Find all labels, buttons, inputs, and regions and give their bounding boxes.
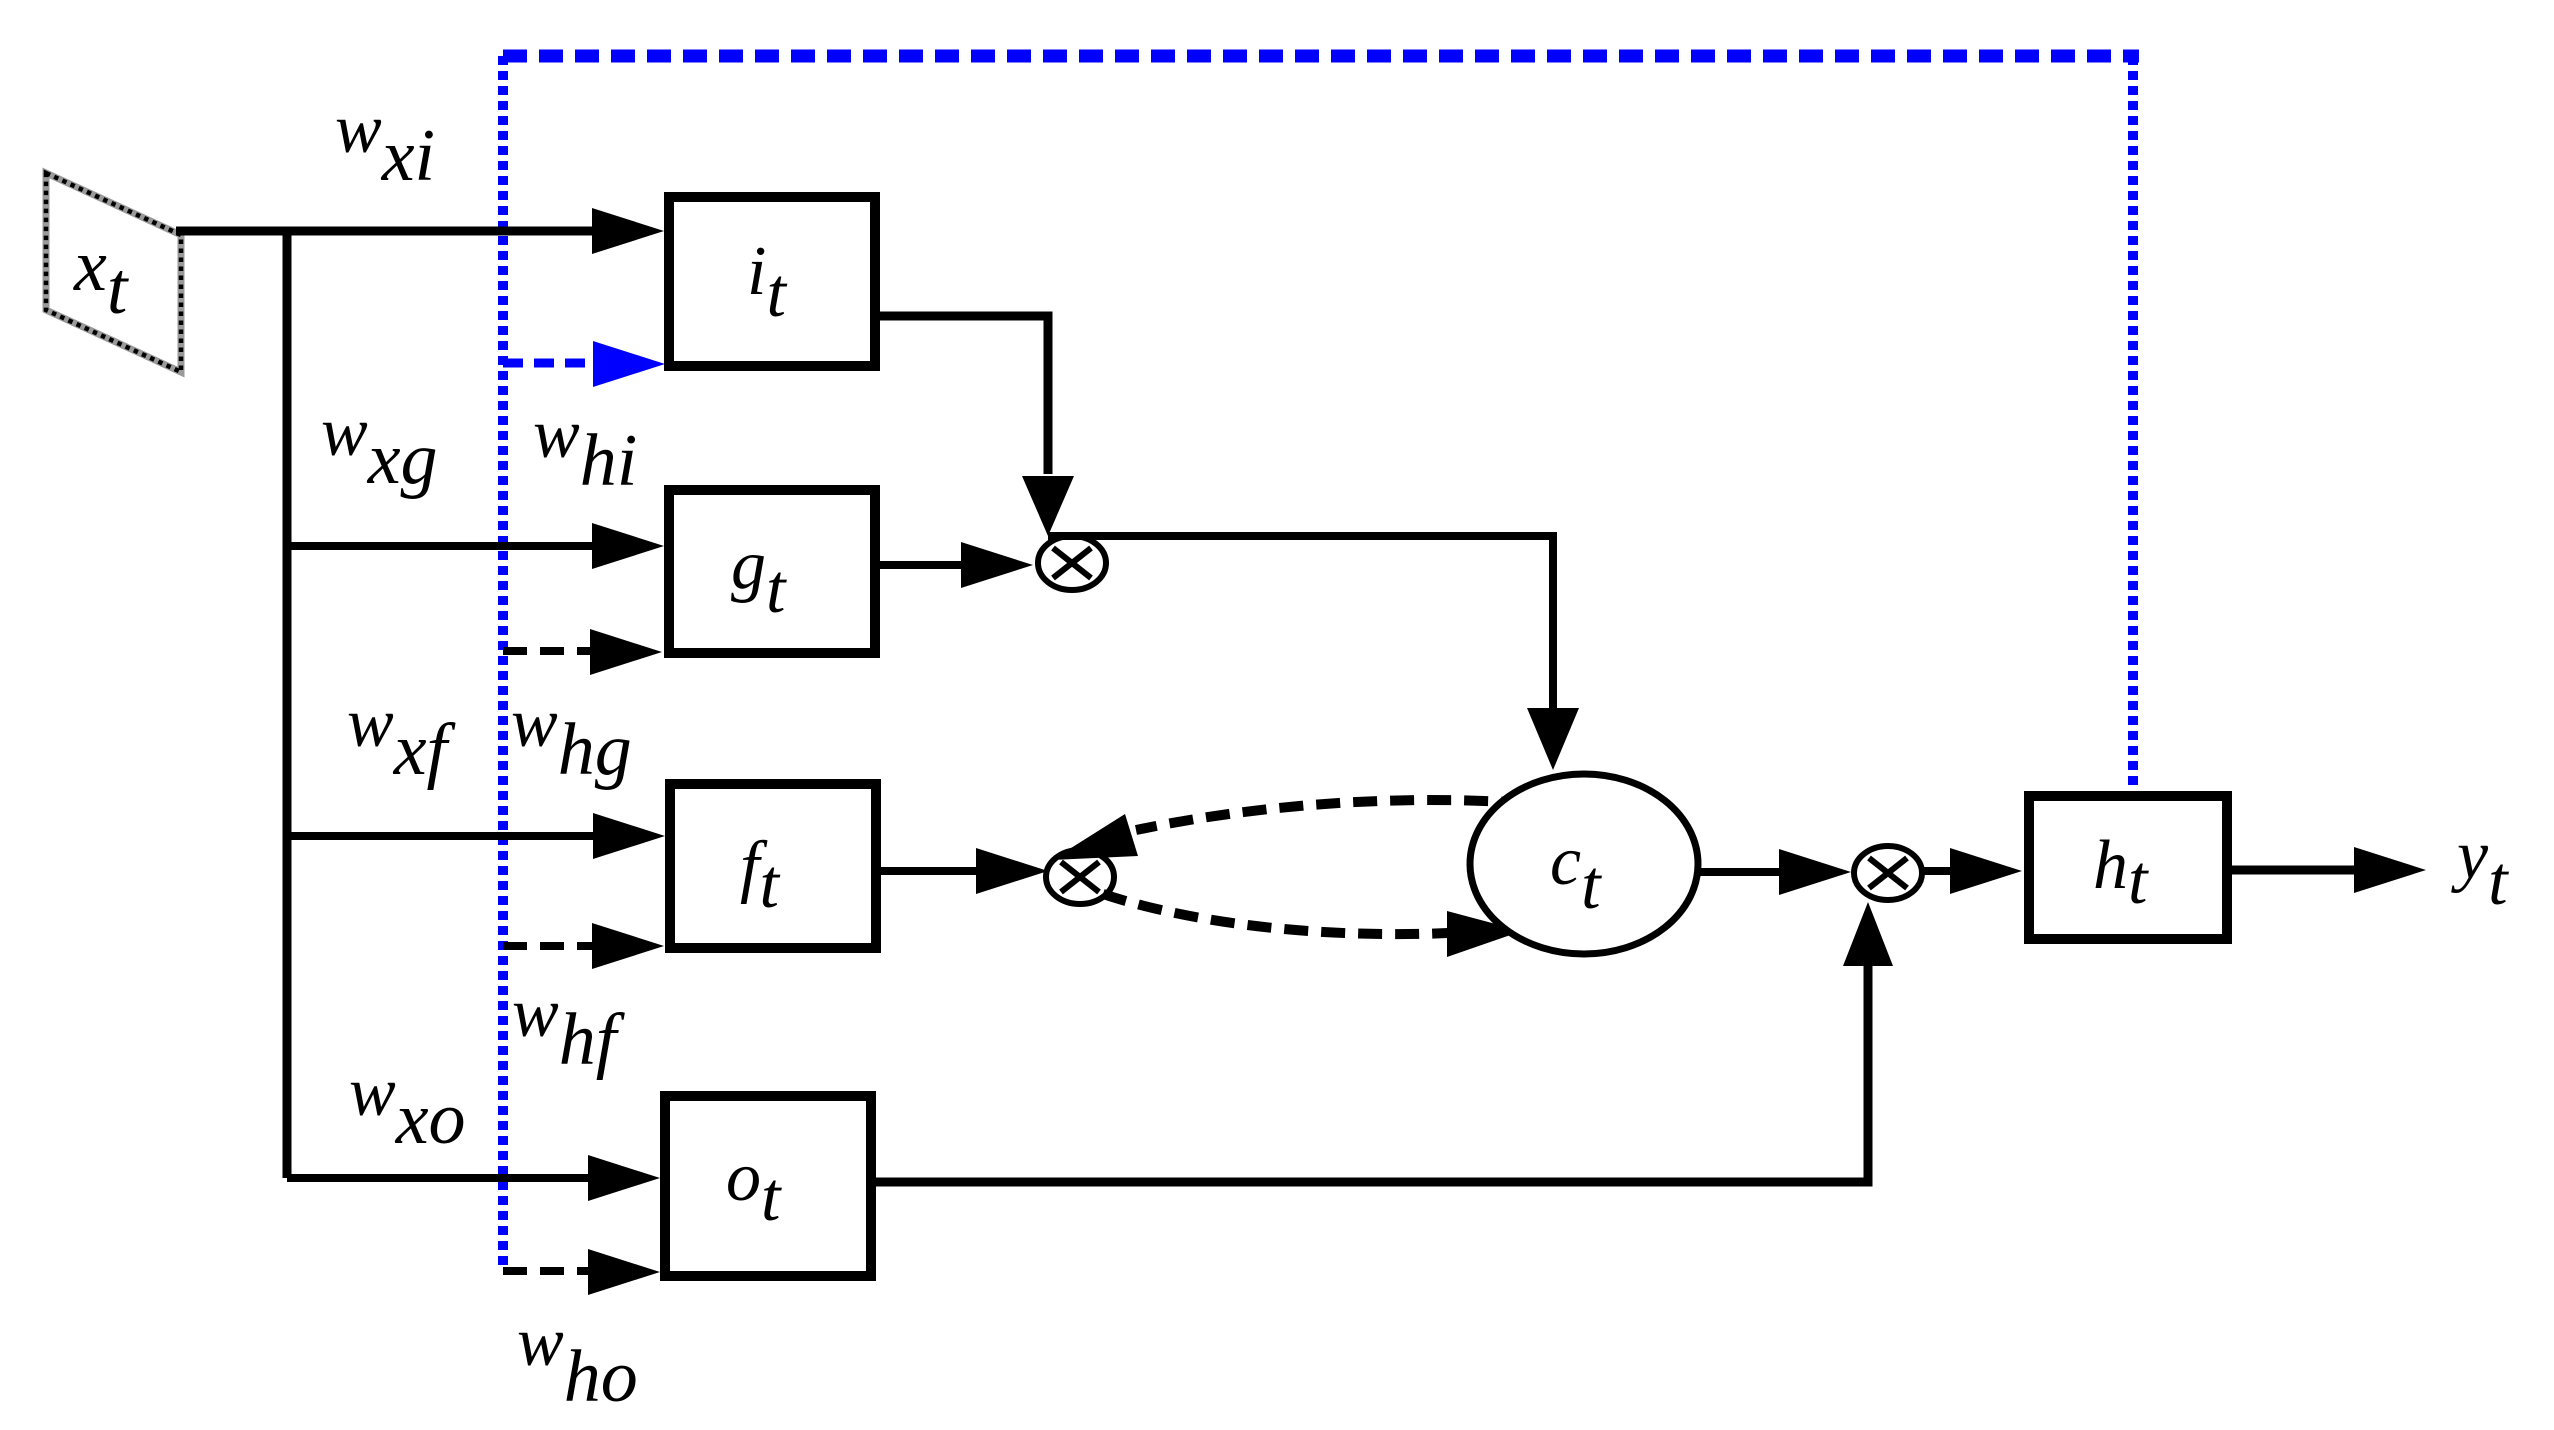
black dashed branch w_hg into g_t	[503, 647, 598, 655]
peephole dashed curve multiply node 2 to c_t	[1103, 894, 1448, 934]
wire: vertical trunk from x_t	[283, 227, 292, 1178]
wire: main line x_t to i_t	[176, 227, 600, 236]
multiply node 1 (i_t x g_t)	[1038, 536, 1106, 590]
recurrent blue dotted left vertical wire	[498, 56, 508, 1267]
blue dashed branch w_hi into i_t	[503, 359, 600, 368]
gate box i_t	[669, 197, 875, 366]
multiply node 2 (f_t x c_t-1)	[1046, 850, 1114, 904]
output box h_t	[2029, 796, 2227, 939]
gate box f_t	[670, 784, 876, 948]
cell state ellipse c_t	[1470, 774, 1698, 954]
wire: branch to o_t	[287, 1174, 596, 1182]
peephole dashed curve c_t to multiply node 2	[1136, 800, 1525, 830]
wire: h_t output arrow to y_t	[2232, 866, 2362, 875]
recurrent blue dashed top wire	[503, 50, 2139, 63]
wire: f_t output arrow	[881, 867, 984, 875]
wire: g_t output arrow	[880, 561, 968, 569]
wire: branch to f_t	[287, 832, 601, 840]
black dashed branch w_hf into f_t	[503, 942, 600, 950]
wire: i_t output elbow down to multiply node	[880, 316, 1048, 474]
multiply node 3 (c_t x o_t)	[1854, 846, 1922, 900]
gate box g_t	[669, 490, 875, 653]
wire: c_t output arrow	[1697, 868, 1780, 876]
wire: multiply node 3 to h_t arrow	[1920, 867, 1958, 875]
wire: branch to g_t	[287, 542, 600, 550]
gate box o_t	[665, 1096, 871, 1276]
black dashed branch w_ho into o_t	[503, 1267, 594, 1275]
recurrent blue dotted right vertical wire into h_t	[2128, 56, 2138, 790]
wire: o_t output elbow up to multiply node 3	[876, 964, 1868, 1182]
wire: multiply node 1 to c_t elbow	[1048, 536, 1553, 708]
input x_t parallelogram	[46, 173, 181, 372]
